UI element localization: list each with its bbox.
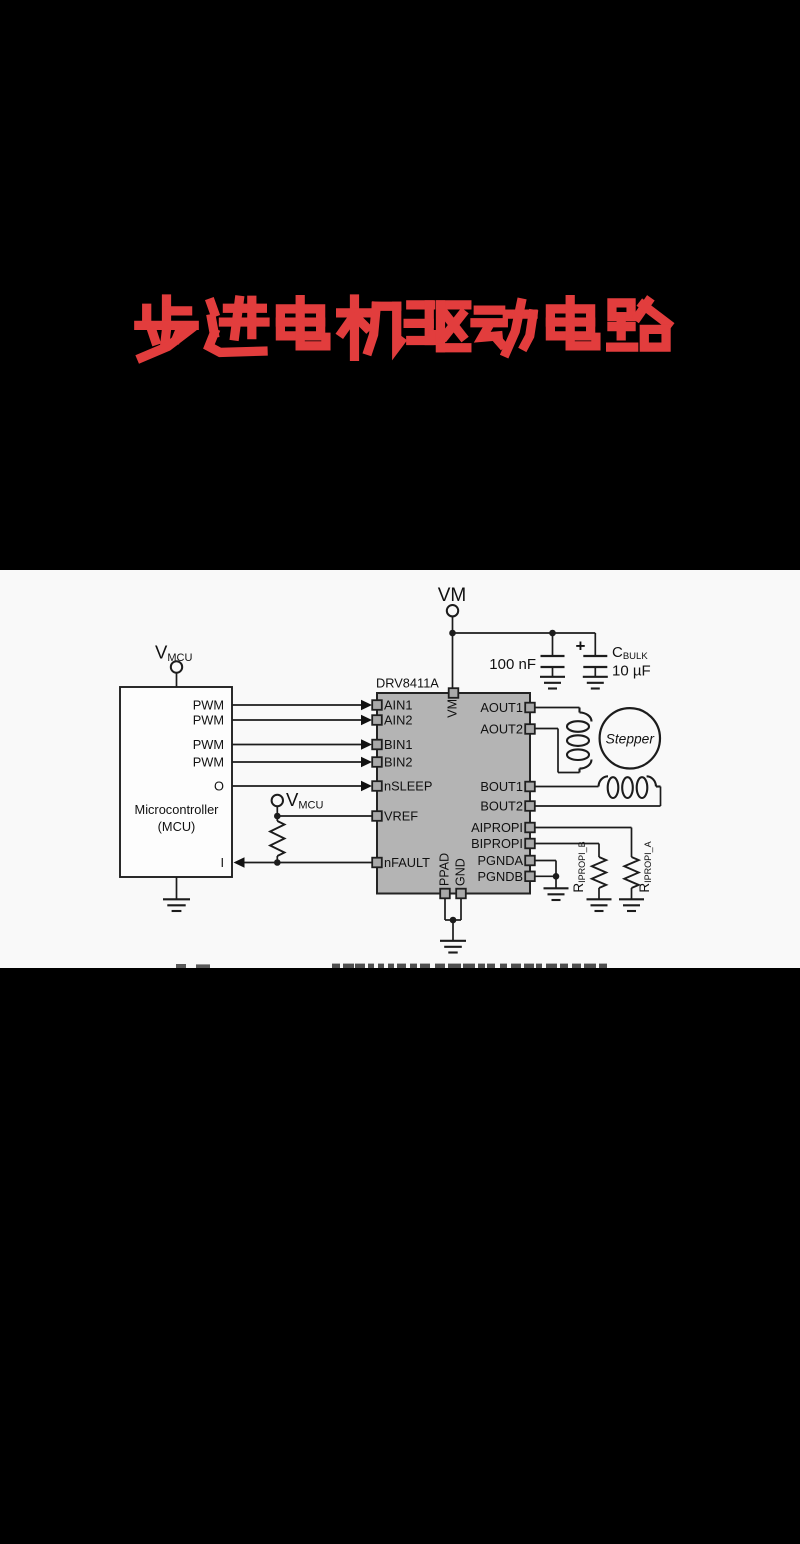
wire AIN2 control: [232, 719, 362, 721]
wire C1 top: [552, 633, 554, 656]
motor M1 stepper body: [600, 708, 660, 768]
VMCU terminal (VREF): [272, 795, 283, 806]
wire BIN2 control: [232, 761, 362, 763]
junction VM rail: [449, 630, 456, 637]
wire to R1 top: [276, 816, 278, 821]
pin BOUT2: [525, 801, 535, 811]
arrowhead BIN1: [361, 739, 372, 749]
pin AIN1: [372, 700, 382, 710]
svg-text:VREF: VREF: [384, 809, 418, 824]
capacitor C1 100 nF: [541, 656, 565, 676]
arrowhead nFAULT: [234, 857, 245, 867]
svg-text:AIN2: AIN2: [384, 713, 412, 728]
svg-text:Stepper: Stepper: [606, 732, 656, 747]
junction PGND: [553, 873, 560, 880]
wire R_IPROPI_A to ground: [631, 888, 633, 899]
ground R_IPROPI_B: [587, 899, 612, 911]
svg-text:(MCU): (MCU): [158, 819, 196, 834]
svg-text:AIN1: AIN1: [384, 698, 412, 713]
inductor winding B: [599, 776, 661, 798]
svg-text:BIN2: BIN2: [384, 755, 412, 770]
pin AOUT2: [525, 724, 535, 734]
wire BIPROPI: [535, 843, 599, 845]
ground C1: [540, 677, 565, 689]
wire PGNDA down: [555, 861, 557, 877]
arrowhead AIN1: [361, 700, 372, 710]
wire AIPROPI: [535, 827, 632, 829]
svg-text:PGNDB: PGNDB: [477, 869, 523, 884]
ground R_IPROPI_A: [619, 899, 644, 911]
wire R1 bottom: [276, 856, 278, 863]
svg-text:PPAD: PPAD: [437, 853, 451, 886]
svg-text:nSLEEP: nSLEEP: [384, 779, 432, 794]
wire MCU to ground: [176, 877, 178, 899]
title glyph 步: [139, 299, 194, 358]
pin PGNDA: [525, 856, 535, 866]
title glyph 电: [280, 300, 326, 346]
wire VM rail: [453, 632, 596, 634]
pin nSLEEP: [372, 781, 382, 791]
title glyph 动: [475, 303, 533, 353]
svg-text:VMCU: VMCU: [155, 642, 192, 665]
svg-text:BOUT2: BOUT2: [480, 799, 523, 814]
wire AIN1 control: [232, 704, 362, 706]
svg-text:CBULK: CBULK: [612, 644, 648, 662]
pin BOUT1: [525, 782, 535, 792]
wire nFAULT: [244, 862, 372, 864]
junction C1 tap: [549, 630, 556, 637]
pin AIN2: [372, 715, 382, 725]
title glyph 驱: [408, 305, 467, 348]
svg-text:RIPROPI_A: RIPROPI_A: [637, 841, 653, 892]
pin VREF: [372, 811, 382, 821]
title glyph 机: [341, 299, 401, 356]
title glyph 路: [611, 302, 668, 348]
svg-text:PWM: PWM: [193, 698, 224, 713]
MCU U2 body: [120, 687, 232, 877]
junction VREF node: [274, 813, 281, 820]
svg-text:BIN1: BIN1: [384, 737, 412, 752]
VM terminal: [447, 605, 458, 616]
wire VMCU to MCU: [176, 673, 178, 687]
svg-text:PWM: PWM: [193, 737, 224, 752]
wire R_IPROPI_B to ground: [598, 888, 600, 899]
svg-text:VM: VM: [445, 699, 459, 718]
ground IC: [440, 941, 466, 953]
svg-text:BIPROPI: BIPROPI: [471, 836, 523, 851]
pin GND (bottom): [456, 889, 466, 899]
capacitor CBULK: [583, 656, 607, 676]
wire BOUT1: [535, 786, 599, 788]
ground CBULK: [583, 677, 608, 689]
wire BOUT2: [535, 805, 661, 807]
wire GND down: [460, 898, 462, 920]
wire VREF: [277, 815, 372, 817]
svg-text:PWM: PWM: [193, 755, 224, 770]
ground MCU: [163, 899, 190, 911]
junction nFAULT node: [274, 859, 281, 866]
wire nSLEEP control: [232, 785, 362, 787]
wire winding A return: [557, 729, 559, 773]
svg-text:O: O: [214, 779, 224, 794]
arrowhead BIN2: [361, 757, 372, 767]
wire PGNDA: [535, 860, 556, 862]
pin VM (top): [449, 688, 459, 698]
wire BIN1 control: [232, 744, 362, 746]
wire GND join: [453, 919, 461, 921]
wire VMCU to VREF node: [276, 806, 278, 816]
wire AOUT1: [535, 707, 580, 709]
wire VM to IC pin: [452, 633, 454, 689]
svg-text:RIPROPI_B: RIPROPI_B: [571, 841, 587, 892]
arrowhead AIN2: [361, 715, 372, 725]
svg-text:BOUT1: BOUT1: [480, 779, 523, 794]
svg-text:PWM: PWM: [193, 713, 224, 728]
svg-text:VM: VM: [438, 585, 467, 606]
svg-text:10 µF: 10 µF: [612, 663, 651, 680]
arrowhead nSLEEP: [361, 781, 372, 791]
pin PPAD (bottom): [440, 889, 450, 899]
VMCU terminal (MCU): [171, 661, 182, 672]
svg-text:nFAULT: nFAULT: [384, 855, 430, 870]
wire CBULK top: [594, 633, 596, 656]
title glyph 进: [209, 300, 265, 352]
svg-text:AOUT2: AOUT2: [480, 722, 523, 737]
wire VM vertical: [452, 616, 454, 633]
pin BIPROPI: [525, 839, 535, 849]
wire winding B right: [660, 787, 662, 807]
pin BIN1: [372, 740, 382, 750]
svg-text:Microcontroller: Microcontroller: [135, 802, 220, 817]
white schematic panel: [0, 570, 800, 968]
IC U1 DRV8411A body: [377, 693, 530, 894]
pin PGNDB: [525, 872, 535, 882]
wire to R_IPROPI_A: [631, 828, 633, 858]
svg-text:100 nF: 100 nF: [489, 656, 536, 673]
pin AIPROPI: [525, 823, 535, 833]
svg-text:I: I: [220, 855, 224, 870]
wire PGNDB: [535, 875, 556, 877]
caption text sliver (clipped by lower band): [176, 964, 607, 968]
pin nFAULT: [372, 858, 382, 868]
resistor R1 pull-up: [270, 821, 284, 856]
svg-text:PGNDA: PGNDA: [477, 853, 523, 868]
pin BIN2: [372, 757, 382, 767]
svg-text:GND: GND: [453, 858, 467, 886]
svg-text:+: +: [576, 637, 586, 656]
wire PGND to ground: [555, 876, 557, 888]
svg-text:DRV8411A: DRV8411A: [376, 676, 439, 691]
resistor R_IPROPI_A: [624, 857, 638, 888]
wire to IC ground: [452, 920, 454, 941]
wire winding A bottom: [558, 772, 580, 774]
svg-text:AIPROPI: AIPROPI: [471, 820, 523, 835]
ground PGND: [544, 888, 569, 900]
wire AOUT2: [535, 728, 558, 730]
wire PPAD join: [445, 919, 453, 921]
svg-text:AOUT1: AOUT1: [480, 700, 523, 715]
svg-text:VMCU: VMCU: [286, 789, 323, 812]
resistor R_IPROPI_B: [592, 857, 606, 888]
junction PPAD-GND: [450, 917, 457, 924]
inductor winding A: [567, 708, 592, 773]
wire to R_IPROPI_B: [598, 844, 600, 858]
pin AOUT1: [525, 703, 535, 713]
title glyph 电: [550, 300, 596, 346]
title: 步进电机驱动电路 (red, drawn as vector strokes): [0, 0, 800, 420]
wire PPAD down: [444, 898, 446, 920]
